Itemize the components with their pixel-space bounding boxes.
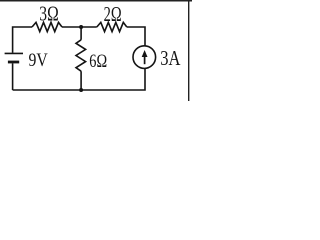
node A junction dot top xyxy=(79,25,83,29)
wire: top middle segment between R1 and R2 xyxy=(62,26,97,28)
node B junction dot bottom xyxy=(79,88,83,92)
top frame border xyxy=(0,0,192,2)
wire: top-left segment from corner to resistor R1 xyxy=(13,27,32,53)
wire: middle branch from node A down to resistor R3 xyxy=(80,27,82,40)
svg-text:6Ω: 6Ω xyxy=(89,51,107,72)
battery short thick plate xyxy=(8,61,19,64)
battery V1 9V: top wire already drawn; long plate xyxy=(5,52,23,54)
wire: below current source to bottom wire xyxy=(13,68,145,90)
svg-text:9V: 9V xyxy=(29,50,49,71)
current source arrow xyxy=(144,55,146,64)
svg-text:2Ω: 2Ω xyxy=(104,2,122,26)
current source I1 circle xyxy=(133,46,156,69)
resistor R3 zigzag 6-ohm vertical xyxy=(76,40,86,71)
svg-text:3Ω: 3Ω xyxy=(39,1,58,25)
resistor R1 zigzag 3-ohm xyxy=(32,22,62,31)
right frame border xyxy=(188,0,190,101)
svg-text:3A: 3A xyxy=(160,46,181,70)
wire: below battery down to bottom-left corner xyxy=(12,63,14,90)
wire: below R3 to bottom wire xyxy=(80,71,82,90)
resistor R2 zigzag 2-ohm xyxy=(97,22,127,31)
wire: top-right segment to corner and down to current source xyxy=(127,27,145,46)
